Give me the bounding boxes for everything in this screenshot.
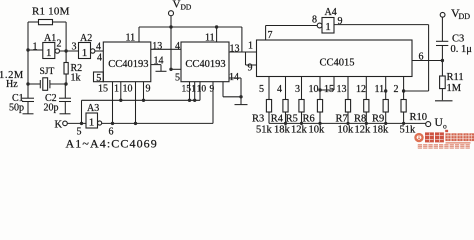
pin labels U2 <box>175 33 240 95</box>
svg-text:R4: R4 <box>271 114 284 125</box>
node U2 pin15 on K net <box>188 99 191 102</box>
svg-text:SJT: SJT <box>40 67 55 77</box>
wire crystal right <box>50 83 66 85</box>
svg-text:5: 5 <box>175 73 180 84</box>
wire R9 bottom stub <box>385 112 387 123</box>
node R9 top <box>384 89 387 92</box>
wire R7 bottom stub <box>347 112 349 123</box>
node U1 pin10 on A3 net <box>134 122 137 125</box>
wire K to A3 <box>67 122 86 124</box>
wire left column <box>27 22 29 98</box>
svg-text:51k: 51k <box>256 125 273 136</box>
svg-text:10: 10 <box>309 84 319 95</box>
wire R3 bottom stub <box>268 112 270 123</box>
node U1 pin1 on K net <box>119 99 122 102</box>
wire C2 down <box>64 102 66 114</box>
inverter A4 <box>312 7 343 33</box>
watermark big text <box>425 130 448 143</box>
svg-text:C3: C3 <box>452 34 464 45</box>
wire U3 pin4 to R4 <box>285 77 287 100</box>
svg-text:1: 1 <box>33 42 38 53</box>
wire U3 pin3 to R5 <box>301 77 303 100</box>
wire R4 bottom stub <box>285 112 287 123</box>
svg-text:A4: A4 <box>325 7 337 18</box>
svg-text:1: 1 <box>191 85 196 95</box>
ground C2 <box>60 113 71 115</box>
power VDD left <box>169 0 192 16</box>
svg-text:9: 9 <box>146 84 151 95</box>
wire A4 out to pin7 <box>266 25 318 27</box>
svg-text:20p: 20p <box>44 103 59 114</box>
svg-text:5: 5 <box>96 73 101 84</box>
svg-text:1M: 1M <box>447 83 462 94</box>
svg-text:R9: R9 <box>372 114 384 125</box>
wire U2 pin1 stub <box>194 82 196 101</box>
svg-text:DD: DD <box>459 12 471 21</box>
svg-text:R1 10M: R1 10M <box>32 6 70 18</box>
svg-text:10: 10 <box>123 84 133 95</box>
terminal Uo <box>426 117 447 131</box>
svg-text:10k: 10k <box>338 125 355 136</box>
wire U1 pin14 <box>151 64 161 66</box>
node U2 ground wire <box>239 95 242 98</box>
svg-text:8: 8 <box>312 15 317 26</box>
node U2 pin1 on K net <box>193 99 196 102</box>
resistor R7 <box>336 100 355 136</box>
wire A4 input from pin2 node <box>334 24 429 26</box>
svg-text:R3: R3 <box>252 114 264 125</box>
watermark bottom line <box>418 144 470 149</box>
wire R8 bottom stub <box>365 112 367 123</box>
svg-text:50p: 50p <box>9 103 24 114</box>
wire K node up to bus1 <box>81 100 83 123</box>
svg-text:1k: 1k <box>71 73 81 84</box>
node R10 top <box>402 89 405 92</box>
svg-text:9: 9 <box>248 63 253 74</box>
shift register U3 CC4015 <box>257 40 413 77</box>
power VDD right <box>440 6 470 21</box>
svg-text:3: 3 <box>72 42 77 53</box>
svg-text:10: 10 <box>197 85 207 95</box>
svg-text:12: 12 <box>356 84 366 95</box>
svg-text:R7: R7 <box>336 114 348 125</box>
crystal SJT <box>40 67 55 90</box>
wire A1 out to A2 in <box>60 50 79 52</box>
wire R1 right vertical <box>65 22 67 51</box>
node U1 pin9 on K net <box>142 99 145 102</box>
watermark medium text <box>445 133 474 141</box>
node R4 bottom <box>284 122 287 125</box>
svg-text:DD: DD <box>181 3 192 12</box>
svg-text:13: 13 <box>230 44 240 55</box>
svg-text:51k: 51k <box>400 125 417 136</box>
wire pin15 jog to R6 <box>333 77 335 91</box>
counter U1 CC40193 <box>103 42 151 82</box>
resistor R9 <box>372 100 389 136</box>
resistor R2 <box>64 63 82 84</box>
node crystal right <box>64 82 67 85</box>
resistor R5 <box>286 100 308 136</box>
svg-text:CC40193: CC40193 <box>108 59 148 70</box>
svg-text:CC40193: CC40193 <box>185 59 225 70</box>
wire rail to U2 pin11 <box>216 27 218 42</box>
node VDD rail <box>169 25 172 28</box>
wire U2 pin14 <box>229 77 241 79</box>
svg-text:9: 9 <box>210 85 215 95</box>
svg-text:R8: R8 <box>354 114 366 125</box>
svg-text:CC4015: CC4015 <box>319 58 354 69</box>
terminal K <box>55 120 68 131</box>
wire crystal left <box>28 83 40 85</box>
svg-text:2: 2 <box>57 39 62 50</box>
svg-text:K: K <box>55 120 63 131</box>
ground C1 <box>23 113 34 115</box>
node pin6 <box>441 59 444 62</box>
wire U3 pin12 to R8 <box>365 77 367 100</box>
wire R1 left <box>28 21 39 23</box>
node R7 bottom <box>346 122 349 125</box>
wire rail to U1 pin11 <box>138 27 140 42</box>
node crystal left <box>26 82 29 85</box>
node A1 input <box>26 48 29 51</box>
svg-text:3: 3 <box>295 84 300 95</box>
wire U3 pin5 to R3 <box>268 77 270 100</box>
node R2 top <box>64 49 67 52</box>
pin labels U3 bottom <box>259 84 399 95</box>
node R10 bottom <box>402 122 405 125</box>
node U2 pin5 <box>169 68 172 71</box>
svg-text:1: 1 <box>248 41 253 52</box>
wire VDD2 to C3 <box>441 17 443 41</box>
svg-text:15: 15 <box>98 84 108 95</box>
svg-text:1: 1 <box>325 21 331 33</box>
svg-text:4: 4 <box>277 84 282 95</box>
wire A1 input <box>28 49 43 51</box>
wire U3 pin2 to R10 <box>403 77 405 100</box>
svg-text:V: V <box>173 0 181 11</box>
wire R6 bottom stub <box>319 112 321 123</box>
svg-text:0. 1μ: 0. 1μ <box>451 44 473 55</box>
svg-text:10k: 10k <box>309 125 326 136</box>
svg-text:R11: R11 <box>447 72 464 83</box>
svg-text:Hz: Hz <box>6 79 18 90</box>
svg-text:1: 1 <box>82 47 88 59</box>
pin labels U1 bottom <box>98 84 151 95</box>
wire U2 pin13 out <box>229 51 257 53</box>
svg-text:12k: 12k <box>355 125 372 136</box>
wire C2 top <box>64 84 66 98</box>
svg-text:13: 13 <box>152 41 162 52</box>
inverter A1 <box>33 33 62 59</box>
svg-text:18k: 18k <box>373 125 390 136</box>
wire VDD to U2 pin5 <box>171 68 181 70</box>
wire A2 out to U1 <box>95 50 103 52</box>
svg-text:1: 1 <box>46 47 52 59</box>
wire U1 pin9 stub <box>143 82 145 101</box>
wire VDD drop <box>170 16 172 70</box>
wire U1 pin15 stub <box>112 82 114 124</box>
wire2 A3 out net <box>102 122 213 124</box>
svg-text:1: 1 <box>114 84 119 95</box>
node U1 pin15 on A3 net <box>111 122 114 125</box>
ground U1 pin14 <box>156 70 167 72</box>
svg-text:A1~A4:CC4069: A1~A4:CC4069 <box>66 137 158 151</box>
node R6 bottom <box>318 122 321 125</box>
svg-text:11: 11 <box>126 33 136 44</box>
node R5 bottom <box>300 122 303 125</box>
label 1.2MHz <box>0 70 24 90</box>
wire R5 bottom stub <box>301 112 303 123</box>
svg-text:7: 7 <box>268 30 273 41</box>
capacitor C1 <box>9 93 34 114</box>
svg-text:2: 2 <box>394 84 399 95</box>
wire U2 pin15 stub <box>189 82 191 101</box>
ground R11 <box>435 100 453 102</box>
resistor R6 <box>303 100 326 136</box>
svg-text:A3: A3 <box>87 103 99 114</box>
wire C1 down <box>27 102 29 114</box>
pin 5 notch U1 <box>94 72 104 84</box>
node K bus <box>80 122 83 125</box>
svg-text:9: 9 <box>338 16 343 27</box>
svg-text:5: 5 <box>259 84 264 95</box>
capacitor C2 <box>44 93 72 114</box>
watermark logo <box>414 130 474 149</box>
resistor R8 <box>354 100 371 136</box>
wire C3 to node <box>441 46 443 77</box>
capacitor C3 <box>436 34 472 56</box>
resistor R3 <box>252 100 273 136</box>
svg-text:13: 13 <box>337 84 347 95</box>
inverter A2 <box>72 33 103 64</box>
svg-text:4: 4 <box>175 41 180 52</box>
svg-text:1: 1 <box>89 117 95 129</box>
bus1 preset K net <box>82 99 201 101</box>
svg-text:4: 4 <box>97 53 102 64</box>
node R9 bottom <box>384 122 387 125</box>
wire VDD rail <box>139 26 242 28</box>
wire U3 pin10 to R6 <box>319 77 321 100</box>
node jog <box>318 88 321 91</box>
wire U2 pin9 stub to ground <box>222 82 224 97</box>
wire R11 bottom <box>441 89 443 101</box>
resistor R1 <box>32 6 70 25</box>
resistor R4 <box>271 100 291 136</box>
node rail U2 <box>215 25 218 28</box>
wire R10 bottom stub <box>403 112 405 123</box>
wire elbow to pin9 <box>245 52 247 65</box>
counter U2 CC40193 <box>181 42 229 82</box>
ground U2 pin14 <box>235 104 248 106</box>
wire U1 pin13 to U2 pin4 <box>151 48 181 50</box>
summing bus <box>269 122 426 124</box>
wire U3 pin11 to R9 <box>385 77 387 100</box>
wire U1 pin10 stub <box>135 82 137 124</box>
svg-text:o: o <box>443 122 447 131</box>
svg-text:18k: 18k <box>274 125 291 136</box>
resistor R10 <box>400 100 428 136</box>
wire U1 pin1 stub <box>120 82 122 101</box>
wire R2 top <box>65 51 67 63</box>
wire R2 bottom <box>65 74 67 84</box>
svg-text:R5: R5 <box>286 114 298 125</box>
wire R1 right <box>53 21 67 23</box>
wire U3 pin13 to R7 <box>347 77 349 100</box>
resistor R11 <box>440 72 464 94</box>
watermark tiny sub row <box>446 142 471 144</box>
svg-text:R10: R10 <box>410 112 428 123</box>
svg-text:R6: R6 <box>303 114 315 125</box>
svg-text:11: 11 <box>375 84 385 95</box>
node R8 bottom <box>365 122 368 125</box>
inverter A3 <box>77 103 114 138</box>
svg-text:11: 11 <box>205 33 215 44</box>
svg-text:12k: 12k <box>291 125 308 136</box>
wire rail right drop <box>241 27 243 52</box>
